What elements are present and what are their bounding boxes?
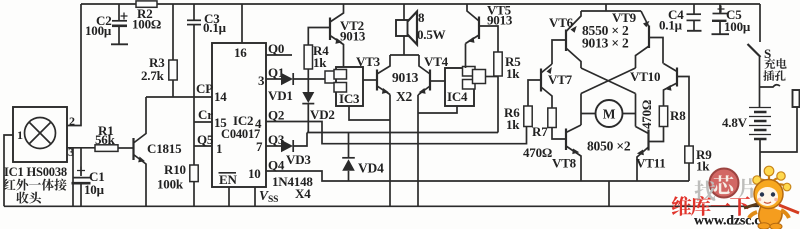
svg-text:IC2: IC2	[233, 113, 253, 128]
svg-text:VD3: VD3	[286, 152, 311, 167]
label Q1	[268, 65, 284, 80]
svg-text:IC3: IC3	[339, 91, 360, 106]
wire IC3 bottom to VT3 emitter line	[349, 106, 390, 120]
svg-text:VD2: VD2	[310, 107, 335, 122]
wire IC3 output to VT3 base	[363, 79, 376, 81]
wire VT3 emitter to ground	[389, 95, 391, 207]
diode VD2	[302, 79, 334, 133]
svg-text:9013: 9013	[340, 29, 366, 44]
svg-text:VT8: VT8	[552, 156, 577, 171]
svg-text:VT10: VT10	[630, 69, 660, 84]
svg-text:8050 ×2: 8050 ×2	[587, 139, 631, 154]
svg-text:X2: X2	[396, 89, 413, 104]
svg-text:Q2: Q2	[268, 108, 284, 123]
svg-text:0.1μ: 0.1μ	[659, 18, 683, 33]
wire Cr stub	[194, 121, 212, 123]
svg-text:1: 1	[17, 128, 23, 142]
wire IC4 tab to R5 bottom	[486, 76, 499, 78]
svg-text:0.1μ: 0.1μ	[203, 20, 227, 35]
svg-text:14: 14	[214, 89, 227, 104]
svg-text:Q5: Q5	[197, 132, 214, 147]
wire right border from rail to switch	[759, 4, 761, 42]
op-amp U1: IC2 C04017 counter box	[212, 43, 266, 187]
resistor R10 100k	[157, 162, 198, 206]
svg-text:16: 16	[234, 45, 247, 60]
wire pin 16 to top rail	[241, 4, 243, 43]
svg-text:0.5W: 0.5W	[417, 27, 446, 42]
transistor VT6 8550	[549, 11, 581, 68]
motor M	[581, 100, 636, 127]
watermark 找芯片	[695, 169, 759, 201]
svg-text:VT4: VT4	[424, 54, 449, 69]
svg-text:R8: R8	[670, 108, 686, 123]
svg-text:100k: 100k	[157, 177, 184, 192]
resistor R2 100ohm (in top rail)	[132, 1, 161, 32]
wire IC1 pin 1 to bottom rail	[4, 135, 13, 206]
wire top rail left segment	[81, 3, 136, 5]
svg-text:470Ω: 470Ω	[523, 145, 552, 160]
resistor R7 470ohm	[523, 108, 566, 160]
capacitor C5 100u electrolytic	[712, 4, 751, 34]
diode VD3	[281, 133, 311, 168]
watermark 维库一下 red	[672, 196, 750, 216]
label 1N4148 X4	[272, 174, 313, 201]
svg-text:56k: 56k	[95, 132, 116, 147]
transistor VT4 9013	[418, 54, 449, 95]
wire L1 drop to ground at x609	[608, 181, 610, 206]
svg-text:CP: CP	[196, 81, 213, 96]
wire CP line (collector to IC2 pin 14)	[146, 96, 212, 98]
label 红外一体接 (infrared integrated)	[3, 179, 66, 191]
IC4 music chip	[445, 67, 486, 107]
label Q4	[268, 158, 285, 173]
wire IC4 bottom jog	[418, 106, 457, 113]
resistor R4 1k	[304, 28, 329, 80]
svg-text:X4: X4	[295, 186, 311, 201]
capacitor C4 0.1u	[659, 4, 702, 33]
svg-text:1: 1	[216, 141, 222, 156]
svg-text:R10: R10	[164, 162, 186, 177]
svg-text:VT3: VT3	[356, 54, 381, 69]
diode VD4	[342, 133, 384, 182]
svg-text:SS: SS	[268, 195, 278, 205]
wire bridge cross diagonals	[581, 68, 636, 94]
label 收头 (receiver head)	[16, 192, 41, 204]
transistor VT8 8050	[552, 125, 581, 181]
label 8550 x2 / 9013 x2	[582, 23, 629, 51]
svg-text:IC4: IC4	[447, 89, 468, 104]
wire Q4 line (L1) to R9	[266, 171, 689, 181]
wire bottom rail (ground/Vss bus)	[4, 205, 759, 207]
charge jack socket	[793, 90, 800, 107]
wire VT4 emitter down across buses to ground	[417, 95, 419, 206]
resistor R5 1k	[494, 52, 521, 133]
wire left bridge vertical (motor left)	[580, 94, 582, 126]
label Vss	[259, 188, 278, 205]
label 9013 X2	[392, 70, 419, 104]
wire sound bus line1 (VD2/VD3 OR to R5)	[307, 132, 498, 134]
svg-text:10μ: 10μ	[84, 182, 105, 197]
svg-text:C04017: C04017	[221, 127, 260, 141]
svg-text:VD1: VD1	[268, 88, 293, 103]
label Q2	[268, 108, 284, 123]
wire node to ground rail at x73	[72, 148, 74, 207]
resistor R3 2.7k	[141, 4, 177, 97]
svg-text:100μ: 100μ	[724, 19, 751, 34]
svg-text:100μ: 100μ	[85, 23, 112, 38]
wire Q5 stub	[194, 145, 212, 147]
svg-text:9013: 9013	[392, 70, 419, 85]
transistor C1815	[134, 97, 183, 206]
transistor VT11 8050	[636, 127, 666, 182]
wire right bridge vertical (motor right)	[635, 94, 637, 127]
wire IC4 top to VT5 emitter	[465, 44, 467, 69]
capacitor C1 10u electrolytic	[72, 148, 105, 207]
resistor R1 56k	[95, 123, 133, 151]
resistor R8 470ohm	[639, 100, 686, 142]
transistor VT10 9013	[630, 64, 689, 147]
svg-text:2: 2	[69, 114, 75, 128]
svg-text:1k: 1k	[313, 55, 327, 70]
svg-text:R7: R7	[532, 124, 548, 139]
transistor VT3 9013	[356, 54, 390, 95]
svg-text:Q0: Q0	[268, 41, 284, 56]
wire Q1 stub	[266, 78, 281, 80]
wire speaker tee to VT3/VT4 collectors	[390, 54, 419, 56]
svg-text:M: M	[603, 107, 616, 122]
svg-text:1k: 1k	[506, 117, 520, 132]
wire switch to battery	[759, 57, 761, 107]
svg-text:9013: 9013	[487, 13, 513, 28]
loudspeaker 8ohm 0.5W	[396, 4, 446, 55]
IC3 music chip	[325, 67, 363, 106]
wire EN stub to ground	[228, 187, 230, 206]
resistor R6 1k	[504, 105, 532, 132]
wire top rail main segment	[157, 3, 760, 5]
svg-text:IC1 HS0038: IC1 HS0038	[4, 165, 67, 179]
svg-text:1k: 1k	[696, 159, 710, 174]
svg-text:9013 × 2: 9013 × 2	[582, 36, 629, 51]
svg-text:100Ω: 100Ω	[132, 17, 161, 32]
svg-text:VT6: VT6	[549, 15, 574, 30]
wire bridge feed from rail	[581, 4, 641, 11]
svg-text:VD4: VD4	[358, 161, 384, 176]
svg-text:VT11: VT11	[636, 156, 666, 171]
battery 4.8V	[722, 108, 771, 140]
svg-text:Cr: Cr	[198, 107, 213, 122]
svg-text:C1815: C1815	[147, 141, 182, 156]
wire Q3 stub	[266, 145, 281, 147]
svg-text:2.7k: 2.7k	[141, 68, 165, 83]
wire battery negative to ground rail	[759, 139, 761, 206]
mascot cartoon	[744, 166, 799, 230]
resistor R9 1k	[685, 146, 712, 181]
transistor VT7 9013	[528, 64, 573, 108]
label Q5	[197, 132, 214, 147]
transistor VT5 9013	[466, 3, 513, 53]
svg-text:VT7: VT7	[548, 72, 573, 87]
svg-text:10: 10	[248, 166, 261, 181]
svg-text:1k: 1k	[506, 66, 520, 81]
wire C3/Cr/Q5 vertical to R10	[193, 25, 195, 165]
svg-text:EN: EN	[219, 172, 237, 187]
wire plug stub with hook	[760, 85, 781, 87]
switch S (charging)	[748, 44, 761, 57]
wire jack return	[760, 107, 798, 152]
svg-text:4.8V: 4.8V	[722, 115, 748, 130]
diode VD1	[268, 73, 326, 103]
wire left border from top rail to IC1 pin 2	[67, 4, 81, 126]
label IC1 HS0038	[4, 165, 67, 179]
wire IC1 pin 3 to R1 node	[67, 147, 95, 149]
svg-text:470Ω: 470Ω	[639, 100, 654, 129]
svg-text:8: 8	[418, 10, 425, 25]
label 8050 x2	[587, 139, 631, 154]
IC1 HS0038 infrared receiver	[13, 107, 75, 162]
transistor VT9 8550	[612, 10, 663, 68]
label Q3	[268, 132, 285, 147]
label S 充电插孔	[764, 46, 771, 61]
svg-text:7: 7	[256, 139, 263, 154]
watermark www.dzsc.com	[694, 214, 779, 229]
capacitor C2 100u electrolytic	[85, 4, 128, 44]
wire Vss stub to ground	[254, 187, 256, 206]
wire Q2 line to R6 (line2)	[266, 122, 527, 144]
label Cr	[198, 107, 213, 122]
transistor VT2 9013	[330, 4, 366, 67]
capacitor C3 0.1u	[187, 4, 227, 35]
wire Q0 stub	[266, 54, 292, 56]
svg-text:3: 3	[258, 73, 265, 88]
label CP	[196, 81, 213, 96]
label Q0	[268, 41, 284, 56]
